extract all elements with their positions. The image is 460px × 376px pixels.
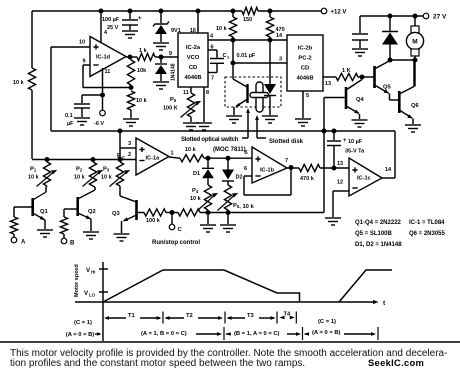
svg-text:(A = 1, B = 0 = C): (A = 1, B = 0 = C) [141,331,187,337]
svg-text:A: A [21,240,26,246]
ground (9V1) [153,43,169,50]
resistor 10k (to pin4 rail) [216,11,237,43]
svg-text:Motor speed: Motor speed [74,264,80,297]
resistor 150 (top rail) [242,7,258,23]
svg-text:-6 V: -6 V [94,121,104,127]
svg-text:7: 7 [285,158,288,164]
svg-text:11: 11 [183,90,189,96]
svg-text:Run/stop control: Run/stop control [152,240,200,246]
svg-text:Q1: Q1 [40,209,49,215]
svg-text:3: 3 [128,141,131,147]
wire pin3 of IC-2b [231,40,288,66]
op-amp IC-1c [349,158,382,196]
pin 5 of IC-2b [303,91,309,118]
svg-text:D1, D2 = 1N4148: D1, D2 = 1N4148 [355,242,402,248]
svg-text:3: 3 [279,57,282,63]
label slotted optical switch [181,108,250,153]
pin 1 label [171,151,174,157]
potentiometer P5 10k [218,185,255,224]
svg-text:1 K: 1 K [342,68,351,74]
transistor Q1 [14,186,49,229]
wire 1k to node [128,55,164,60]
transistor Q4 [346,77,365,119]
resistor B input [60,209,67,239]
resistor 100 k [138,209,166,224]
svg-text:(C = 1): (C = 1) [318,319,336,325]
pin 13 label [337,161,343,167]
svg-text:100 µF: 100 µF [102,17,120,23]
capacitor 100uF 25V [102,11,142,31]
svg-text:(C = 1): (C = 1) [74,320,92,326]
potentiometer P3 10k [101,162,130,187]
junction dots on top rail [99,9,273,14]
resistor 10k (feedback upper) [127,57,147,90]
resistor 1 k [137,48,155,61]
svg-text:+: + [138,16,142,22]
wire pin3 link [120,131,136,159]
ground (1N4148) [153,82,169,89]
svg-text:IC-2a: IC-2a [186,45,201,51]
potentiometer P5 100K [163,93,201,122]
svg-text:IC-1d: IC-1d [96,55,111,61]
resistor 10k (feedback lower) [127,91,147,118]
pin 13 of IC-2b [323,77,336,87]
wire bottom rail [200,210,324,215]
graph condition B=1 A=0=C [234,327,309,340]
flyback diode [382,16,398,60]
graph VLO level [84,290,108,298]
svg-text:10 k: 10 k [101,175,113,181]
ground (P5 100K) [183,123,199,130]
pin 9 of IC-2a [161,51,178,57]
svg-text:13: 13 [337,161,343,167]
pin 14 label [385,167,392,173]
ground (pin 12) [325,218,341,225]
svg-text:10 k: 10 k [136,98,148,104]
svg-text:T2: T2 [186,313,193,319]
ground (P4) [200,225,216,232]
label slotted disk [255,115,304,145]
resistor A input [10,207,17,238]
graph T3 interval [227,313,276,320]
diode D1 [193,158,214,185]
resistor 470 [266,11,284,43]
svg-text:100 k: 100 k [146,218,161,224]
caption rule [0,341,460,343]
svg-text:13: 13 [325,81,331,87]
svg-text:1 k: 1 k [139,48,148,54]
transistor Q5 [362,61,398,101]
svg-text:Slotted optical switch: Slotted optical switch [181,137,239,143]
svg-text:µF: µF [67,121,74,127]
resistor 470 k [299,164,320,182]
svg-text:10 k: 10 k [74,175,86,181]
svg-text:C: C [122,155,125,160]
svg-text:LO: LO [89,293,96,298]
svg-text:10 µF: 10 µF [348,139,363,145]
watermark SeekIC.com [368,357,424,368]
svg-text:4046B: 4046B [184,75,201,81]
svg-text:14: 14 [385,167,392,173]
transistor Q6 [399,60,419,124]
pin 11 of IC-1d [103,68,111,95]
ground (Q3) [114,234,130,241]
svg-text:16: 16 [190,28,196,34]
graph axis motor speed [74,262,386,341]
terminal 27 V [423,13,447,20]
pin 2 label [128,152,131,158]
wire node Ec rail [32,157,136,162]
pin 11 of IC-2a [183,87,191,96]
svg-text:E: E [117,154,121,160]
LED (optocoupler) [264,40,276,115]
svg-text:PC-2: PC-2 [298,56,311,62]
svg-text:10 k: 10 k [190,196,202,202]
label Q6 = 2N3055 [409,231,446,237]
ground (Q2) [83,232,99,239]
ground (P5 10k) [220,225,236,232]
svg-text:35-V Ta: 35-V Ta [345,149,365,155]
svg-text:IC-1c: IC-1c [357,176,371,182]
svg-text:8: 8 [206,90,209,96]
svg-text:Q2: Q2 [88,209,96,215]
svg-text:(A = 0 = B): (A = 0 = B) [66,332,95,338]
wire 27V rail [360,14,423,19]
wire IC-1d feedback [83,65,131,88]
svg-text:5: 5 [245,150,248,156]
svg-text:150: 150 [243,17,252,23]
motor M [406,16,423,60]
svg-text:10k: 10k [137,68,147,74]
terminal C run/stop [152,213,200,247]
svg-text:P3: P3 [103,167,110,173]
graph T4 interval [280,312,295,320]
ground (0.1uF) [74,118,90,125]
svg-text:6: 6 [244,166,247,172]
caption text [10,348,447,369]
svg-text:+: + [343,138,347,144]
svg-text:10 k: 10 k [13,80,25,86]
svg-text:Q5 = SL100B: Q5 = SL100B [355,231,393,237]
svg-text:Q1-Q4 = 2N2222: Q1-Q4 = 2N2222 [355,220,402,226]
graph condition A=1 B=0=C [141,327,231,340]
IC U2b box [287,35,323,91]
wire to pin5 IC-1b [204,150,252,161]
svg-text:P4: P4 [192,188,199,194]
pin 8 of IC-2a [204,87,209,122]
pin 4 of IC-1d [101,11,108,42]
pin 6 of IC-2a [211,45,214,51]
pin 9 label [83,59,86,65]
wire motor bottom [388,58,418,87]
svg-text:11: 11 [105,69,111,75]
phototransistor [233,63,248,115]
label Q1-Q4 = 2N2222 [355,220,402,226]
pin 16 of IC-2a [190,11,198,34]
ground (Q1) [37,230,53,237]
graph T1 interval [104,313,162,320]
wire IC-1a output [169,157,180,158]
svg-text:14: 14 [276,33,283,39]
pin 6 label [244,166,247,172]
capacitor 0.1uF [65,95,90,127]
svg-text:CD: CD [189,65,197,71]
svg-text:IC-2b: IC-2b [298,46,313,52]
transistor Q3 [112,186,138,233]
label Q5 = SL100B [355,231,393,237]
terminal +12 V [321,8,346,15]
wire IC-1b feedback [244,165,294,195]
potentiometer P1 10k [28,162,57,187]
svg-text:SeekIC.com: SeekIC.com [368,357,424,368]
wire +12V top rail [32,10,321,12]
svg-text:9: 9 [169,51,172,57]
svg-text:100 K: 100 K [163,106,178,112]
svg-text:IC-1a: IC-1a [146,156,161,162]
svg-text:P1: P1 [30,167,37,173]
wire 470k to pin13 [320,166,349,171]
svg-text:T3: T3 [247,313,255,319]
svg-text:4046B: 4046B [296,76,313,82]
svg-text:27 V: 27 V [433,14,447,21]
pin 7 of IC-2a [211,76,214,82]
svg-text:CD: CD [301,66,309,72]
svg-text:(B = 1, A = 0 = C): (B = 1, A = 0 = C) [234,331,280,337]
wire IC-1b output [287,167,299,169]
svg-text:Q6 = 2N3055: Q6 = 2N3055 [409,231,446,237]
svg-text:Slotted disk: Slotted disk [269,139,304,145]
svg-text:Q4: Q4 [356,97,365,103]
svg-text:HI: HI [91,270,95,275]
IC U2a box [178,33,208,87]
svg-text:0.1: 0.1 [65,113,73,119]
svg-text:(MOC 7811): (MOC 7811) [213,147,246,153]
svg-text:(A = 0 = B): (A = 0 = B) [312,330,341,336]
wire IC-1c feedback [382,131,395,178]
potentiometer P4 10k [190,185,218,224]
wire feedback rail [51,129,395,134]
wire IC-1d noninverting input [51,47,90,131]
svg-text:0.01 µF: 0.01 µF [237,53,256,59]
ground (10k divider) [123,119,139,126]
svg-text:5: 5 [306,93,309,99]
svg-text:tion profiles and the constant: tion profiles and the constant motor spe… [10,358,305,369]
svg-text:IC-1 = TL084: IC-1 = TL084 [409,220,445,226]
svg-text:7: 7 [211,76,214,82]
optocoupler MOC7811 dashed box [225,77,281,107]
svg-text:9: 9 [83,59,86,65]
svg-text:+12 V: +12 V [331,10,347,16]
diode D2 [222,158,243,185]
slotted disk [250,82,269,112]
svg-text:Q6: Q6 [411,103,420,109]
wire pin 12 ground [333,191,349,217]
svg-text:P2: P2 [76,167,83,173]
transistor Q2 [64,186,96,231]
pin 12 label [337,180,343,186]
potentiometer P2 10k [74,162,103,187]
svg-text:C: C [223,53,227,59]
svg-text:10: 10 [79,40,85,46]
ground (pin 5 IC-2b) [295,119,311,126]
svg-text:10 k: 10 k [28,175,40,181]
pin 3 label [128,141,131,147]
wire pin4 to pin14 [208,33,287,40]
pin 4 of IC-2a [210,34,214,40]
resistor 1 K [336,68,365,81]
resistor 10k (left vertical) [13,11,36,159]
zener diode 9V1 [153,11,181,42]
svg-text:10 k: 10 k [185,147,197,153]
resistor 10 k (IC-1a out) [180,147,204,162]
diode 1N4148 [155,57,177,81]
ground (phototransistor) [226,116,242,123]
svg-text:VCO: VCO [187,55,200,61]
ground (27V cap) [352,49,368,56]
op-amp IC-1d [90,37,126,77]
graph T interval ticks [163,312,296,324]
terminal B [61,238,75,246]
svg-text:T1: T1 [128,313,136,319]
svg-text:Q3: Q3 [112,211,121,217]
wire IC-1d output [126,56,137,58]
svg-text:25 V: 25 V [107,25,119,31]
svg-text:1: 1 [171,151,174,157]
graph condition C=1 right [312,319,378,340]
svg-text:470 k: 470 k [300,176,315,182]
ground (pin 8) [196,123,212,130]
graph condition C=1 left [66,320,102,338]
svg-text:IC-1b: IC-1b [260,168,275,174]
ground (LED) [262,116,278,123]
wire C node [166,210,178,215]
svg-text:M: M [412,39,417,46]
capacitor 10uF 35V Ta [327,131,365,168]
capacitor (27V decoupling) [352,16,368,48]
svg-text:10 k: 10 k [216,26,228,32]
label D1 D2 = 1N4148 [355,242,402,248]
svg-text:D2: D2 [236,175,243,181]
wire Q4 base [324,98,345,213]
terminal -6 V [94,95,105,127]
label IC-1 = TL084 [409,220,445,226]
wire -6V node [82,93,105,98]
graph VHI level [86,267,108,275]
svg-text:P5: P5 [170,97,177,103]
capacitor C1 [208,50,230,73]
svg-text:Q5: Q5 [383,85,392,91]
svg-text:P5, 10 k: P5, 10 k [233,203,254,210]
pin 10 label [79,40,85,46]
svg-text:B: B [70,241,75,247]
ground (100uF) [122,31,138,38]
svg-text:2: 2 [128,152,131,158]
node Ec label [117,154,125,161]
resistor (run/stop series) [178,209,200,216]
op-amp IC-1b [252,147,287,183]
graph T2 interval [165,313,224,320]
graph velocity profile [103,270,392,302]
op-amp IC-1a [136,138,169,175]
svg-text:12: 12 [337,180,343,186]
terminal A [11,237,26,245]
ground (Q6) [405,125,421,132]
pin 7 label [285,158,288,164]
svg-text:D1: D1 [193,171,200,177]
ground (Q4) [352,120,368,127]
svg-text:1N4148: 1N4148 [171,63,177,81]
